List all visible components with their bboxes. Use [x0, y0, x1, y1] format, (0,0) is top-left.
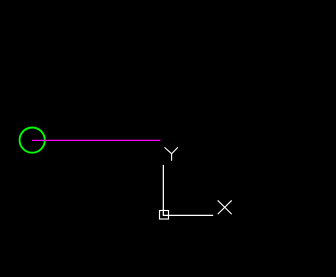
origin square	[160, 211, 169, 220]
label X	[218, 201, 231, 214]
wire (magenta line from circle center)	[32, 139, 160, 141]
label Y	[165, 148, 178, 161]
Y axis line and X axis line (origin axes)	[163, 165, 213, 215]
circle C1 (green graphic circle)	[20, 128, 45, 153]
